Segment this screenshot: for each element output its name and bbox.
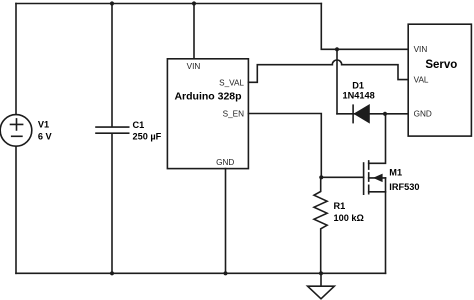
node dot bottom R1	[319, 271, 323, 275]
node dot bottom C1	[110, 271, 114, 275]
svg-text:Arduino 328p: Arduino 328p	[174, 90, 241, 102]
svg-text:R1: R1	[334, 201, 346, 211]
resistor R1	[314, 177, 327, 273]
wire gate	[321, 176, 363, 178]
svg-text:Servo: Servo	[425, 59, 457, 71]
capacitor C1	[96, 127, 129, 133]
wire Arduino VIN drop	[193, 4, 195, 59]
wire diode row to servo GND	[337, 113, 408, 115]
diode D1	[352, 105, 354, 122]
wire S_VAL	[248, 65, 332, 83]
wire C1 bottom	[111, 134, 113, 274]
node dot gate	[319, 175, 323, 179]
svg-text:S_EN: S_EN	[223, 109, 244, 118]
wire bottom rail	[16, 272, 386, 274]
svg-text:D1: D1	[352, 81, 364, 91]
servo box	[408, 24, 471, 136]
wire C1 top	[111, 4, 113, 127]
svg-text:250 µF: 250 µF	[133, 132, 162, 142]
wire V1 bottom	[15, 146, 17, 273]
svg-text:VIN: VIN	[187, 62, 201, 71]
voltage source V1	[0, 115, 32, 147]
svg-text:1N4148: 1N4148	[343, 91, 375, 101]
svg-text:IRF530: IRF530	[389, 182, 419, 192]
svg-text:GND: GND	[216, 158, 234, 167]
wire top rail	[16, 3, 321, 5]
wire S_EN	[248, 114, 321, 178]
node dot top VIN	[192, 1, 196, 5]
svg-text:S_VAL: S_VAL	[219, 78, 244, 87]
node dot top C1	[110, 1, 114, 5]
svg-text:M1: M1	[389, 168, 402, 178]
IC U1 Arduino 328p box	[167, 59, 248, 169]
svg-text:100 kΩ: 100 kΩ	[334, 213, 364, 223]
svg-text:6 V: 6 V	[38, 131, 53, 141]
transistor M1 MOSFET	[363, 163, 365, 194]
node dot bottom GND	[223, 271, 227, 275]
svg-text:V1: V1	[38, 119, 49, 129]
wire Arduino GND drop	[225, 169, 227, 274]
node dot diode branch	[335, 47, 339, 51]
svg-text:C1: C1	[133, 120, 145, 130]
wire top right to servo VIN	[321, 4, 408, 50]
wire V1 top	[15, 4, 17, 115]
wire hop	[332, 60, 341, 65]
wire S_VAL to servo VAL	[342, 65, 409, 80]
svg-text:VAL: VAL	[414, 76, 429, 85]
ground	[320, 273, 322, 286]
svg-text:GND: GND	[414, 110, 432, 119]
wire diode branch vertical	[336, 49, 338, 114]
svg-text:VIN: VIN	[414, 45, 428, 54]
node dot drain	[383, 112, 387, 116]
